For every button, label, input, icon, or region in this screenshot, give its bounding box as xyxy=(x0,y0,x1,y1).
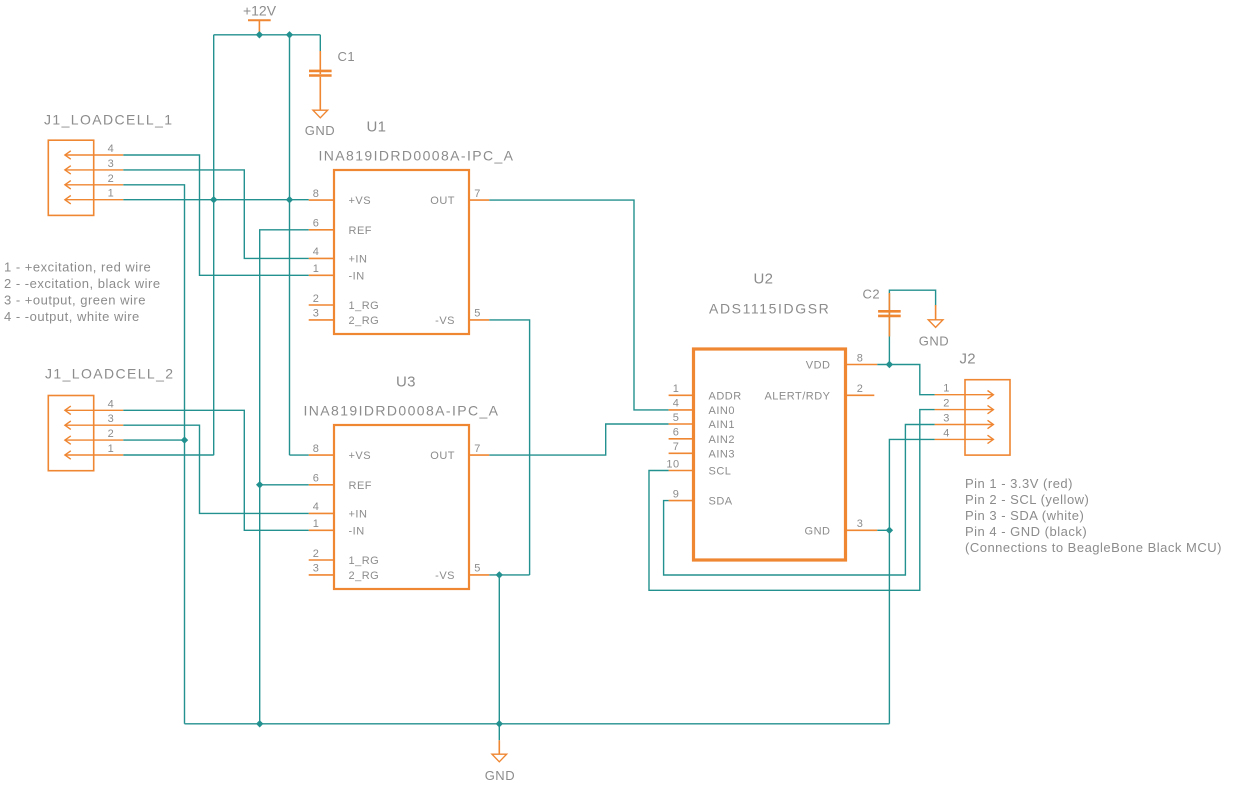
svg-text:OUT: OUT xyxy=(430,450,455,462)
adc U2 pin 4 (AIN0) stub xyxy=(669,409,694,411)
svg-text:-VS: -VS xyxy=(435,570,455,582)
svg-text:-IN: -IN xyxy=(349,525,365,537)
svg-text:3: 3 xyxy=(943,413,950,425)
adc U2 pin 2 (ALERT/RDY) stub xyxy=(846,394,875,396)
svg-text:1: 1 xyxy=(313,518,320,530)
svg-text:3: 3 xyxy=(108,413,115,425)
wire loadcell2 pin4 to U3 -IN xyxy=(123,410,308,530)
svg-text:4: 4 xyxy=(108,143,115,155)
svg-text:7: 7 xyxy=(673,441,680,453)
wire +12V top rail xyxy=(214,34,321,36)
svg-text:8: 8 xyxy=(313,443,320,455)
connector J2 pin 2 arrow xyxy=(935,405,994,413)
adc U2 pin 3 (GND) stub xyxy=(846,529,878,531)
svg-text:AIN0: AIN0 xyxy=(709,405,735,417)
wire +12V right drop to +VS pins xyxy=(289,35,291,455)
op-amp U3 pin 5 (-VS) stub xyxy=(469,574,489,576)
wire U1 OUT to U2 AIN0 xyxy=(489,200,668,410)
connector J1_LOADCELL_1 pin 1 arrow xyxy=(65,196,123,204)
svg-text:4 - -output, white wire: 4 - -output, white wire xyxy=(4,309,140,324)
ground symbol near J2 xyxy=(928,320,943,328)
svg-text:5: 5 xyxy=(474,308,481,320)
svg-text:1: 1 xyxy=(673,383,680,395)
svg-text:-VS: -VS xyxy=(435,315,455,327)
svg-text:GND: GND xyxy=(305,123,335,138)
svg-text:+IN: +IN xyxy=(349,253,368,265)
svg-text:1: 1 xyxy=(313,263,320,275)
svg-text:3: 3 xyxy=(313,563,320,575)
svg-text:1_RG: 1_RG xyxy=(349,300,380,312)
svg-text:4: 4 xyxy=(313,246,320,258)
op-amp U3 pin 4 (+IN) stub xyxy=(309,512,334,514)
svg-text:GND: GND xyxy=(805,525,831,537)
svg-text:REF: REF xyxy=(349,480,373,492)
op-amp U1 body xyxy=(334,170,469,334)
wire C2 top to ground symbol xyxy=(889,290,935,364)
junction +12V drop at loadcell1 pin1 xyxy=(210,196,217,203)
svg-text:6: 6 xyxy=(313,218,320,230)
connector J1_LOADCELL_1 pin 4 arrow xyxy=(65,151,123,159)
svg-text:7: 7 xyxy=(474,443,481,455)
svg-text:J2: J2 xyxy=(960,351,976,368)
op-amp U3 pin 1 (-IN) stub xyxy=(309,529,334,531)
adc U2 pin 10 (SCL) stub xyxy=(669,470,694,472)
junction -VS node xyxy=(496,571,503,578)
connector J2 body xyxy=(965,380,1010,455)
connector J2 pin 3 arrow xyxy=(935,420,994,428)
svg-text:Pin 3 - SDA (white): Pin 3 - SDA (white) xyxy=(965,508,1084,523)
svg-text:AIN3: AIN3 xyxy=(709,448,735,460)
op-amp U3 pin 6 (REF) stub xyxy=(309,484,334,486)
connector J1_LOADCELL_2 pin 4 arrow xyxy=(65,406,123,414)
connector J1_LOADCELL_2 body xyxy=(48,396,93,471)
svg-text:4: 4 xyxy=(673,398,680,410)
junction VDD and C2 xyxy=(886,361,893,368)
svg-text:C2: C2 xyxy=(863,287,881,302)
wire U1 -VS down to node -VS xyxy=(489,320,529,575)
svg-text:2: 2 xyxy=(108,173,115,185)
svg-text:5: 5 xyxy=(474,563,481,575)
svg-text:1: 1 xyxy=(108,188,115,200)
wire loadcell1 pin2 down to ground rail xyxy=(123,185,184,724)
op-amp U1 pin 6 (REF) stub xyxy=(309,229,334,231)
svg-text:4: 4 xyxy=(108,398,115,410)
svg-text:4: 4 xyxy=(313,501,320,513)
svg-text:2: 2 xyxy=(313,548,320,560)
wire U2 GND stub to ground drop xyxy=(877,529,889,531)
svg-text:U3: U3 xyxy=(396,374,416,391)
power +12V symbol stub xyxy=(258,20,260,35)
svg-text:3: 3 xyxy=(313,308,320,320)
svg-text:C1: C1 xyxy=(338,49,356,64)
svg-text:Pin 2 - SCL (yellow): Pin 2 - SCL (yellow) xyxy=(965,492,1089,507)
svg-text:OUT: OUT xyxy=(430,195,455,207)
svg-text:REF: REF xyxy=(349,225,373,237)
wire U1 REF down to ground rail xyxy=(260,230,309,724)
svg-text:+VS: +VS xyxy=(349,450,372,462)
op-amp U1 pin 4 (+IN) stub xyxy=(309,257,334,259)
svg-text:2_RG: 2_RG xyxy=(349,570,380,582)
wire -VS node down to ground rail xyxy=(498,575,500,724)
svg-text:1_RG: 1_RG xyxy=(349,555,380,567)
op-amp U3 pin 7 (OUT) stub xyxy=(469,454,489,456)
capacitor C1 xyxy=(309,51,332,110)
ground symbol stub at rail xyxy=(498,724,500,741)
op-amp U1 pin 1 (-IN) stub xyxy=(309,274,334,276)
adc U2 pin 1 (ADDR) stub xyxy=(669,394,694,396)
junction +12V drop at U1 +VS xyxy=(286,196,293,203)
svg-text:1 - +excitation, red wire: 1 - +excitation, red wire xyxy=(4,260,151,275)
adc U2 pin 7 (AIN3) stub xyxy=(669,452,694,454)
adc U2 body xyxy=(694,349,846,560)
svg-text:INA819IDRD0008A-IPC_A: INA819IDRD0008A-IPC_A xyxy=(304,403,500,419)
wire U2 SCL to J2 pin2 xyxy=(649,410,935,591)
op-amp U1 pin 7 (OUT) stub xyxy=(469,199,489,201)
svg-text:6: 6 xyxy=(313,473,320,485)
op-amp U1 pin 8 (+VS) stub xyxy=(309,199,334,201)
wire U3 +VS from +12V drop xyxy=(290,454,309,456)
connector J1_LOADCELL_1 pin 2 arrow xyxy=(65,181,123,189)
svg-text:+12V: +12V xyxy=(243,3,277,19)
svg-text:U1: U1 xyxy=(367,119,387,136)
wire loadcell1 pin1 / +12V to U1 +VS xyxy=(123,199,308,201)
wire +12V drop to C1 xyxy=(319,35,321,51)
ground symbol lead at rail xyxy=(498,740,500,754)
wire loadcell2 pin1 to +12V drop xyxy=(123,454,213,456)
op-amp U1 pin 3 (2_RG) stub xyxy=(309,319,334,321)
wire loadcell1 pin3 to U1 +IN xyxy=(123,170,308,259)
wire U3 REF to ground drop xyxy=(260,484,309,486)
svg-text:ALERT/RDY: ALERT/RDY xyxy=(764,390,830,402)
junction REF net at U3 xyxy=(256,481,263,488)
capacitor C2 xyxy=(878,293,901,337)
svg-text:J1_LOADCELL_1: J1_LOADCELL_1 xyxy=(44,111,174,127)
wire +12V left drop to loadcell pins 1 xyxy=(213,35,215,455)
ground lead for C2 net xyxy=(935,305,937,320)
svg-text:INA819IDRD0008A-IPC_A: INA819IDRD0008A-IPC_A xyxy=(319,148,515,164)
svg-text:+VS: +VS xyxy=(349,195,372,207)
svg-text:2: 2 xyxy=(108,428,115,440)
junction ground net at loadcell2 pin2 xyxy=(181,436,188,443)
svg-text:AIN2: AIN2 xyxy=(709,434,735,446)
wire U2 VDD to J2 pin1 xyxy=(877,365,934,395)
svg-text:2: 2 xyxy=(943,398,950,410)
svg-text:ADDR: ADDR xyxy=(709,390,742,402)
svg-text:3: 3 xyxy=(857,518,864,530)
connector J1_LOADCELL_2 pin 3 arrow xyxy=(65,421,123,429)
connector J1_LOADCELL_2 pin 1 arrow xyxy=(65,451,123,459)
svg-text:2: 2 xyxy=(313,293,320,305)
adc U2 pin 8 (VDD) stub xyxy=(846,364,878,366)
svg-text:9: 9 xyxy=(673,488,680,500)
adc U2 pin 9 (SDA) stub xyxy=(669,500,694,502)
ground symbol below C1 xyxy=(313,110,328,118)
junction ground rail -VS drop xyxy=(496,720,503,727)
svg-text:8: 8 xyxy=(857,352,864,364)
svg-text:6: 6 xyxy=(673,427,680,439)
svg-text:1: 1 xyxy=(943,383,950,395)
connector J1_LOADCELL_1 body xyxy=(48,140,93,215)
svg-text:-IN: -IN xyxy=(349,270,365,282)
junction ground at U2 GND xyxy=(886,527,893,534)
svg-text:GND: GND xyxy=(485,768,515,783)
wire loadcell2 pin2 to ground net xyxy=(123,439,184,441)
op-amp U1 pin 2 (1_RG) stub xyxy=(309,304,334,306)
svg-text:Pin 1 - 3.3V (red): Pin 1 - 3.3V (red) xyxy=(965,476,1073,491)
wire J2 pin4 ground drop to rail xyxy=(889,439,934,723)
power +12V symbol bar xyxy=(248,19,271,21)
svg-text:Pin 4 - GND (black): Pin 4 - GND (black) xyxy=(965,524,1087,539)
svg-text:GND: GND xyxy=(919,334,949,349)
wire U3 -VS to node -VS xyxy=(489,574,529,576)
svg-text:2: 2 xyxy=(857,383,864,395)
ground symbol at rail xyxy=(492,754,507,762)
junction +12V at +VS drop xyxy=(286,31,293,38)
op-amp U1 pin 5 (-VS) stub xyxy=(469,319,489,321)
wire loadcell2 pin3 to U3 +IN xyxy=(123,425,308,513)
svg-text:2 - -excitation, black wire: 2 - -excitation, black wire xyxy=(4,276,161,291)
svg-text:(Connections to BeagleBone Bla: (Connections to BeagleBone Black MCU) xyxy=(965,540,1222,555)
svg-text:3 - +output, green wire: 3 - +output, green wire xyxy=(4,293,146,308)
wire loadcell1 pin4 to U1 -IN xyxy=(123,155,308,275)
svg-text:3: 3 xyxy=(108,158,115,170)
wire U2 SDA to J2 pin3 xyxy=(664,425,935,576)
svg-text:+IN: +IN xyxy=(349,508,368,520)
svg-text:J1_LOADCELL_2: J1_LOADCELL_2 xyxy=(45,365,175,381)
svg-text:7: 7 xyxy=(474,188,481,200)
svg-text:SCL: SCL xyxy=(709,466,732,478)
op-amp U3 pin 2 (1_RG) stub xyxy=(309,559,334,561)
junction +12V at supply stub xyxy=(256,31,263,38)
svg-text:4: 4 xyxy=(943,427,950,439)
svg-text:AIN1: AIN1 xyxy=(709,419,735,431)
connector J2 pin 1 arrow xyxy=(935,391,994,399)
svg-text:8: 8 xyxy=(313,188,320,200)
junction ground rail REF drop xyxy=(256,720,263,727)
adc U2 pin 6 (AIN2) stub xyxy=(669,438,694,440)
op-amp U3 pin 3 (2_RG) stub xyxy=(309,574,334,576)
svg-text:U2: U2 xyxy=(754,270,774,287)
svg-text:SDA: SDA xyxy=(709,496,733,508)
svg-text:2_RG: 2_RG xyxy=(349,315,380,327)
svg-text:10: 10 xyxy=(666,458,679,470)
op-amp U3 body xyxy=(334,425,469,589)
svg-text:1: 1 xyxy=(108,443,115,455)
svg-text:ADS1115IDGSR: ADS1115IDGSR xyxy=(709,301,830,317)
wire U3 OUT to U2 AIN1 xyxy=(489,424,668,455)
svg-text:5: 5 xyxy=(673,412,680,424)
wire ground rail xyxy=(185,723,890,725)
connector J1_LOADCELL_2 pin 2 arrow xyxy=(65,436,123,444)
connector J1_LOADCELL_1 pin 3 arrow xyxy=(65,166,123,174)
adc U2 pin 5 (AIN1) stub xyxy=(669,423,694,425)
connector J2 pin 4 arrow xyxy=(935,435,994,443)
svg-text:VDD: VDD xyxy=(806,360,831,372)
op-amp U3 pin 8 (+VS) stub xyxy=(309,454,334,456)
